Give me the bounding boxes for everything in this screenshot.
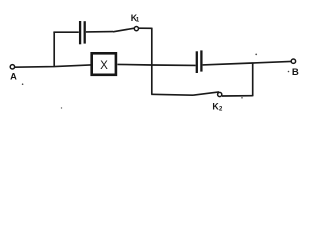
terminal A	[10, 65, 14, 69]
wire K1 to corner	[139, 27, 152, 29]
speck bottom middle	[61, 107, 62, 108]
svg-text:2: 2	[219, 107, 223, 113]
speck below A	[22, 83, 24, 85]
wire right bottom vertical	[252, 63, 254, 97]
terminal B	[291, 59, 295, 63]
wire bottom branch left	[151, 93, 193, 96]
svg-text:A: A	[10, 71, 17, 81]
switch K2 blade	[193, 92, 219, 95]
speck above right junction	[255, 54, 257, 56]
speck left of B label	[288, 71, 290, 73]
wire right vertical of branches through main wire	[151, 28, 153, 95]
wire top branch middle	[86, 31, 113, 33]
switch K2 contact	[218, 92, 222, 96]
svg-text:1: 1	[136, 18, 140, 24]
wire left branch vertical	[53, 32, 55, 67]
wire right capacitor to terminal B	[203, 61, 292, 65]
wire main A to box X	[15, 65, 91, 67]
wire top branch left	[53, 31, 78, 33]
capacitor top branch left plate	[79, 21, 81, 44]
capacitor right right plate	[200, 50, 202, 71]
switch K1 blade	[113, 28, 135, 32]
svg-text:B: B	[292, 67, 299, 78]
wire box X to right capacitor	[117, 64, 195, 65]
speck right of K2 wire	[241, 97, 243, 99]
svg-text:X: X	[100, 59, 108, 72]
capacitor top branch right plate	[84, 21, 86, 43]
wire K2 to right corner	[222, 95, 253, 97]
switch K1 contact	[134, 27, 138, 31]
capacitor right left plate	[196, 51, 198, 73]
block X box	[92, 53, 116, 75]
